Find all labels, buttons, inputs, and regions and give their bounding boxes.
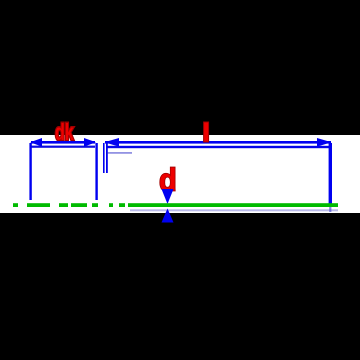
extension line dk right: [95, 143, 97, 200]
arrowhead dk right: [84, 138, 96, 147]
arrowhead dk left: [30, 138, 42, 147]
dimension line dk ghost echo: [31, 146, 95, 148]
white drawing band: [0, 135, 360, 213]
arrow d down: [162, 189, 174, 204]
arrow d up: [162, 209, 174, 223]
label d: [159, 164, 177, 198]
dimension line l: [105, 141, 331, 144]
extension line l left (doubled): [103, 143, 105, 173]
centerline solid right part: [128, 203, 338, 207]
extension line l right: [329, 143, 332, 205]
extension line dk left: [29, 143, 31, 200]
ghost echo below l corner: [107, 152, 132, 154]
ghost echo below centerline: [130, 209, 338, 211]
dimension line dk: [31, 141, 95, 144]
arrowhead l left: [104, 138, 119, 147]
label l (plain bar glyph): [204, 122, 209, 142]
arrowhead l right: [317, 138, 331, 147]
centerline (green dash-dot), left dashed part: [13, 203, 125, 207]
dimension line l ghost echo: [106, 146, 331, 148]
label dk: [55, 120, 74, 146]
